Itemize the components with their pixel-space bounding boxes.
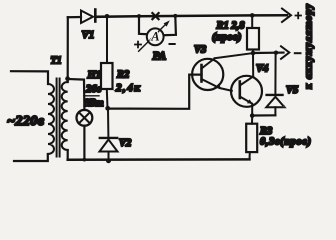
wire: R2 bottom to V3 base riser bbox=[108, 75, 202, 109]
meter plus bbox=[135, 42, 141, 48]
plus sign output bbox=[296, 13, 302, 19]
svg-text:V5: V5 bbox=[286, 85, 298, 96]
svg-text:26в: 26в bbox=[85, 84, 102, 95]
transistor V3 bbox=[192, 59, 232, 91]
svg-text:R3: R3 bbox=[259, 126, 272, 137]
wire: secondary bottom lead to bottom rail bbox=[67, 150, 69, 160]
node: lamp branch tap bbox=[65, 76, 70, 81]
svg-text:Н1: Н1 bbox=[87, 70, 101, 81]
wire: V4 emitter drop bbox=[251, 104, 253, 116]
meter minus bbox=[170, 43, 175, 45]
diode V2 bbox=[107, 109, 109, 137]
svg-text:2,4к: 2,4к bbox=[115, 82, 140, 94]
lamp H1 bbox=[77, 110, 93, 126]
fraction line bbox=[84, 95, 99, 97]
wire: V4 collector riser bbox=[252, 53, 254, 77]
diode V1 bbox=[81, 10, 95, 24]
minus sign output bbox=[295, 52, 301, 54]
wire: emitter junction to V5 bbox=[252, 114, 275, 116]
resistor R2 bbox=[106, 16, 108, 63]
diode V5 bbox=[274, 107, 276, 115]
meter PA circle bbox=[147, 28, 164, 45]
svg-text:V3: V3 bbox=[194, 45, 206, 56]
wire: lamp to bottom rail bbox=[83, 126, 85, 160]
node: V2 bottom on rail bbox=[106, 158, 111, 163]
wire: top rail left segment from corner to V1 bbox=[68, 16, 81, 18]
wire: V3 collector to junction bbox=[215, 53, 253, 58]
node: R2 bottom junction bbox=[105, 106, 110, 111]
resistor R3 bbox=[251, 116, 253, 124]
transistor V4 bbox=[231, 76, 262, 107]
svg-text:3Вт: 3Вт bbox=[84, 98, 104, 109]
svg-text:R1 2,8: R1 2,8 bbox=[216, 20, 246, 31]
node: V5 tap bbox=[274, 51, 278, 55]
meter PA bracket left bbox=[139, 16, 147, 34]
meter PA bracket right bbox=[164, 16, 176, 35]
meter needle bbox=[139, 23, 167, 51]
svg-text:V2: V2 bbox=[119, 138, 132, 149]
node: R2 tap on top rail bbox=[105, 14, 110, 19]
wire: minus output rail bbox=[253, 51, 284, 54]
arrow - output bbox=[281, 46, 289, 59]
transformer core bbox=[56, 79, 58, 157]
wire: tap to lamp bbox=[68, 79, 85, 110]
arrow + output bbox=[282, 9, 291, 23]
wire: top rail from V1 to + arrow bbox=[95, 15, 287, 17]
node: emitter junction bbox=[250, 113, 255, 118]
svg-text:(пров): (пров) bbox=[212, 31, 241, 43]
resistor R1 bbox=[251, 15, 253, 28]
transformer primary winding bbox=[48, 84, 54, 154]
svg-text:А: А bbox=[150, 29, 159, 43]
node: meter left tap bbox=[137, 14, 141, 18]
speck bbox=[283, 105, 285, 107]
node: lamp branch on rail bbox=[83, 158, 87, 162]
node: R1 bottom / collectors junction bbox=[251, 51, 256, 56]
bottom rail bbox=[68, 158, 250, 161]
svg-text:R2: R2 bbox=[116, 70, 130, 81]
transformer secondary winding bbox=[62, 82, 68, 150]
svg-text:к аккумулятору: к аккумулятору bbox=[304, 3, 315, 89]
svg-text:0,3в(пров): 0,3в(пров) bbox=[260, 137, 311, 148]
input lead upper bbox=[11, 71, 48, 84]
meter needle arrowhead bbox=[164, 20, 170, 26]
node: R1 tap on top rail bbox=[250, 13, 255, 18]
jumper X symbol on top rail bbox=[152, 13, 158, 19]
svg-text:V1: V1 bbox=[82, 29, 95, 41]
svg-text:V4: V4 bbox=[256, 64, 268, 75]
svg-text:Т1: Т1 bbox=[51, 56, 62, 67]
wire: left drop from top rail to secondary winding bbox=[67, 17, 69, 82]
input lead lower bbox=[14, 154, 48, 161]
node: meter right tap bbox=[173, 14, 177, 18]
svg-text:~220в: ~220в bbox=[7, 114, 45, 129]
svg-text:РА: РА bbox=[153, 51, 167, 63]
